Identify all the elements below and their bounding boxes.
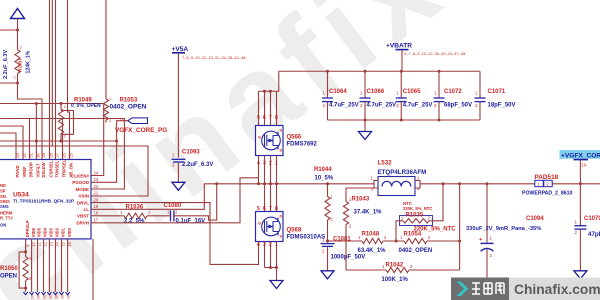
svg-text:24: 24: [94, 170, 99, 175]
wire arrow stem: [17, 19, 19, 31]
chip U534 body: [0, 160, 91, 239]
wire top vertical pin28: [49, 0, 51, 160]
junction LL rail x327.5: [326, 182, 329, 185]
svg-text:33: 33: [15, 152, 20, 157]
vid flag VID1: [59, 292, 63, 295]
svg-text:G: G: [258, 222, 261, 226]
resistor R1036: [124, 213, 147, 218]
wire top vertical pin26 stub: [62, 119, 64, 160]
svg-text:16-: 16-: [48, 293, 52, 299]
svg-text:47pF: 47pF: [588, 231, 600, 238]
banner left box: [451, 278, 509, 300]
svg-text:32: 32: [22, 152, 27, 157]
svg-text:Chinafix.com: Chinafix.com: [514, 282, 600, 297]
vid flag DPRSLP: [23, 292, 27, 295]
wire VID5 down: [37, 239, 39, 292]
wire DPRSLP top: [25, 239, 27, 257]
svg-text:19-: 19-: [582, 163, 589, 168]
wire H y133 pin33: [0, 133, 16, 160]
junction outrail x487: [486, 182, 489, 185]
svg-text:D: D: [280, 215, 283, 219]
svg-text:VID5: VID5: [37, 227, 42, 237]
svg-text:2.2_5%: 2.2_5%: [124, 218, 145, 224]
wire VBATR rail: [279, 70, 480, 72]
svg-text:VID0: VID0: [67, 227, 72, 237]
inductor L532 coil: [382, 181, 411, 186]
svg-text:22: 22: [94, 184, 99, 189]
resistor R1050: [23, 257, 28, 281]
wire H y126 pin32: [0, 126, 23, 160]
vid flag VID3: [47, 292, 51, 295]
wire H y118.5 to pin22 riser: [0, 119, 124, 190]
wire VBST segment: [91, 215, 124, 217]
svg-text:220K_5%_NTC: 220K_5%_NTC: [414, 227, 457, 233]
wire R1037 down: [18, 74, 43, 160]
junction bottomrail x439: [438, 119, 441, 122]
svg-text:4.7uF_25V: 4.7uF_25V: [403, 103, 433, 109]
wire fb mid rail c: [427, 240, 460, 242]
wire C1065 top stem: [400, 71, 402, 97]
junction H103 p30: [35, 102, 38, 105]
wire C1094 bottom stem: [486, 249, 488, 278]
power bar +VBATR: [396, 49, 409, 51]
svg-text:CLKEN#: CLKEN#: [71, 173, 89, 178]
wire C1064 bottom stem: [327, 102, 329, 120]
junction y141 flagline: [115, 140, 118, 143]
wire H y141: [0, 140, 117, 142]
wire C1072 top stem: [438, 71, 440, 97]
ground Q568: [270, 281, 283, 289]
svg-text:124K_1%: 124K_1%: [26, 50, 32, 73]
wire caps bottom rail: [328, 119, 481, 121]
wire Q568 source down 2: [276, 242, 278, 268]
net highlight +VGFX_CORE: [560, 150, 600, 159]
svg-text:DPRSLP: DPRSLP: [25, 220, 30, 237]
svg-text:+: +: [479, 237, 482, 243]
junction gate rail: [257, 182, 260, 185]
wire Q566 gate col: [258, 156, 260, 184]
svg-text:C1070: C1070: [584, 216, 600, 222]
svg-text:7: 7: [269, 115, 272, 121]
wire L532 right stubs: [415, 181, 420, 189]
capacitor C1064: [322, 98, 333, 102]
svg-text:19: 19: [94, 204, 99, 209]
wire Q566 drain pin 5: [258, 91, 260, 125]
power bar +V5A: [172, 52, 185, 54]
svg-text:18pF_50V: 18pF_50V: [488, 103, 516, 109]
wire pin30 riser: [35, 104, 37, 160]
wire fb mid rail a: [328, 240, 363, 242]
svg-text:MODE: MODE: [76, 187, 90, 192]
wire chip corner down: [92, 239, 94, 300]
wire VID6 down: [31, 239, 33, 292]
wire Q566 src to Q568 drain 2: [276, 156, 278, 212]
svg-text:R1044: R1044: [314, 167, 332, 173]
vid flag VID5: [35, 292, 39, 295]
wire Q568 source down 0: [264, 242, 266, 268]
wire R1050 bypass bracket: [19, 252, 26, 288]
svg-text:37.4K_1%: 37.4K_1%: [354, 210, 383, 216]
wire C1094 top stem: [486, 184, 488, 243]
wire C1071 bottom stem: [479, 102, 481, 120]
svg-text:SNS: SNS: [0, 204, 9, 209]
transistor Q566 body: [256, 126, 284, 156]
svg-text:2.2uF_6.3V: 2.2uF_6.3V: [182, 162, 213, 168]
junction LL rail x270.5: [269, 182, 272, 185]
svg-text:VBST: VBST: [77, 214, 89, 219]
svg-text:ND: ND: [0, 183, 6, 188]
junction src bus b: [275, 266, 278, 269]
junction VBATR x401.25: [400, 70, 403, 73]
svg-text:29: 29: [41, 152, 46, 157]
svg-text:PGND: PGND: [15, 165, 20, 177]
resistor R1048: [362, 238, 383, 243]
svg-text:C1093: C1093: [182, 149, 200, 155]
svg-text:OPEN: OPEN: [0, 274, 17, 280]
svg-text:0402_OPEN: 0402_OPEN: [110, 104, 147, 111]
thermistor R1035 element: [403, 219, 429, 223]
svg-text:5-,7-,8-,9-,10-,12-,36-,40-,41: 5-,7-,8-,9-,10-,12-,36-,40-,41-,47-,48-: [404, 52, 467, 56]
capacitor C1080: [171, 210, 174, 221]
junction drain bus a: [263, 90, 266, 93]
vid flag VID6: [29, 292, 33, 295]
banner background: [451, 278, 600, 300]
wire +VBATR stem: [401, 50, 403, 71]
wire R1044 to C1081: [327, 220, 329, 243]
svg-text:16-: 16-: [31, 293, 35, 299]
svg-text:C1081: C1081: [333, 237, 351, 243]
svg-text:28: 28: [49, 152, 54, 157]
junction y141 R1049: [60, 140, 63, 143]
svg-text:68pF_50V: 68pF_50V: [444, 103, 472, 109]
svg-text:16-: 16-: [37, 293, 41, 299]
vid flag VID4: [41, 292, 45, 295]
junction R1050 bottom: [24, 287, 27, 290]
junction drain bus b: [269, 90, 272, 93]
svg-text:DROOP: DROOP: [29, 162, 34, 178]
svg-text:2.2uF_6.3V: 2.2uF_6.3V: [3, 50, 9, 79]
svg-text:17: 17: [94, 218, 99, 223]
svg-text:16-: 16-: [54, 293, 58, 299]
svg-text:CSRSEL: CSRSEL: [49, 160, 54, 177]
transistor Q568 symbol: [262, 217, 281, 236]
svg-text:DRVH: DRVH: [76, 221, 89, 226]
junction outrail x443: [442, 182, 445, 185]
wire output rail: [420, 183, 600, 185]
pad PAD518 square 1: [535, 180, 543, 186]
wire VBATR drop to Q566: [259, 71, 279, 91]
wire R1049 bypass bracket: [61, 111, 74, 135]
svg-text:C1072: C1072: [444, 89, 462, 95]
wire fb low rail b: [409, 269, 460, 271]
wire left to arrow node: [0, 29, 18, 31]
wire C1066 top stem: [364, 71, 366, 97]
svg-text:VID2: VID2: [55, 227, 60, 237]
resistor R1053: [103, 99, 108, 120]
wire VGFX stem: [579, 160, 581, 184]
svg-text:31: 31: [29, 152, 34, 157]
wire LL rail: [204, 183, 374, 185]
svg-text:D: D: [280, 129, 283, 133]
svg-text:FDMS0310AS: FDMS0310AS: [287, 234, 326, 240]
capacitor C1071: [475, 98, 486, 102]
svg-text:21: 21: [94, 191, 99, 196]
wire R1049 bottom stub: [60, 134, 62, 141]
svg-text:VID3: VID3: [49, 227, 54, 237]
wire VID2 down: [54, 239, 56, 292]
svg-text:VSFILT: VSFILT: [36, 163, 41, 178]
wire top vertical pin27: [55, 0, 57, 160]
junction fb ntc: [395, 240, 398, 243]
svg-text:330uF_2V_9mR_Pana_-35%: 330uF_2V_9mR_Pana_-35%: [466, 226, 541, 232]
vid flag VID2: [53, 292, 57, 295]
svg-text:+VGFX_CORE: +VGFX_CORE: [561, 152, 600, 159]
resistor R1044: [325, 197, 330, 221]
svg-text:DSLEW: DSLEW: [41, 162, 46, 177]
wire L532 left stubs: [374, 181, 378, 189]
svg-text:63.4K_1%: 63.4K_1%: [358, 248, 387, 254]
svg-text:16-: 16-: [67, 293, 71, 299]
wire H y103.5 to pin24 riser: [0, 104, 104, 176]
wire R1035 left: [396, 221, 403, 241]
svg-text:R1035: R1035: [406, 213, 424, 219]
wire Q566 drain pin 6: [264, 91, 266, 125]
svg-text:23: 23: [94, 177, 99, 182]
ground C1093: [172, 182, 185, 190]
wire top vertical mid: [51, 0, 53, 146]
junction R1037 y83: [16, 82, 19, 85]
junction VBATR x327.5: [326, 70, 329, 73]
wire fb mid rail b: [383, 240, 404, 242]
svg-text:G: G: [258, 136, 261, 140]
wire source bus to ground: [276, 268, 278, 281]
svg-text:5: 5: [257, 115, 260, 121]
svg-text:C1065: C1065: [403, 89, 421, 95]
svg-text:18: 18: [94, 211, 99, 216]
svg-text:+VBATR: +VBATR: [386, 43, 412, 50]
svg-text:220K_5%_NTC: 220K_5%_NTC: [403, 206, 432, 211]
svg-text:FDMS7692: FDMS7692: [287, 141, 318, 147]
wire left y83: [0, 82, 18, 84]
svg-text:+V5A: +V5A: [172, 46, 189, 53]
junction outrail x459.6: [458, 182, 461, 185]
transistor Q568 body: [256, 212, 284, 242]
svg-text:VSIN: VSIN: [78, 194, 89, 199]
svg-text:VGFX_CORE_PG: VGFX_CORE_PG: [115, 127, 167, 134]
wire DRVL to Q568 gate: [91, 203, 259, 265]
svg-text:20: 20: [94, 197, 99, 202]
ground C1081: [321, 271, 334, 279]
banner cjk text: [472, 283, 504, 294]
junction bottomrail x401.25: [400, 119, 403, 122]
capacitor C1094 polarized: [481, 243, 494, 251]
capacitor C1093: [172, 159, 186, 162]
svg-text:4: 4: [257, 242, 260, 248]
wire Q568 source bus: [265, 267, 277, 269]
wire C1071 top stem: [479, 71, 481, 97]
junction y141 p30: [35, 140, 38, 143]
svg-text:16-: 16-: [61, 293, 65, 299]
svg-text:10_5%: 10_5%: [315, 175, 334, 181]
svg-text:PAD518: PAD518: [535, 174, 559, 181]
svg-text:16-: 16-: [43, 293, 47, 299]
junction R1050 top: [24, 250, 27, 253]
resistor R1042: [386, 267, 409, 272]
svg-text:PGOOD: PGOOD: [72, 180, 90, 185]
svg-text:R_TT#: R_TT#: [0, 216, 13, 221]
wire R1044 top stub: [327, 184, 329, 197]
svg-text:0402_OPEN: 0402_OPEN: [399, 248, 433, 254]
svg-text:25: 25: [69, 152, 74, 157]
svg-text:POWERPAD_2_8610: POWERPAD_2_8610: [522, 190, 572, 196]
junction src bus a: [269, 266, 272, 269]
wire top vertical pin25 dogleg: [68, 0, 70, 160]
wire Q566 src to Q568 drain 1: [270, 156, 272, 212]
transistor Q566 symbol: [262, 131, 281, 150]
svg-text:6: 6: [263, 115, 266, 121]
resistor R1037: [15, 50, 20, 74]
capacitor C1072: [434, 98, 445, 102]
svg-text:13-: 13-: [119, 117, 125, 122]
junction fb right: [458, 240, 461, 243]
svg-text:VID4: VID4: [43, 227, 48, 237]
svg-text:R1042: R1042: [386, 262, 404, 268]
wire C1093 to ground: [177, 163, 179, 183]
junction at arrow node: [16, 29, 19, 32]
wire H y146 VSIN pin21: [0, 146, 148, 196]
capacitor C1066: [360, 98, 371, 102]
wire DRVH to Q566 gate: [91, 178, 259, 223]
wire C1080 jog to rail: [174, 184, 216, 220]
junction bottomrail x365: [364, 119, 367, 122]
junction LL rail x216.7: [215, 182, 218, 185]
wire VID4 down: [43, 239, 45, 292]
junction VBATR x365: [364, 70, 367, 73]
wire Q566 drain pin 7: [270, 91, 272, 125]
wire C1065 bottom stem: [400, 102, 402, 120]
wire top vertical to R1053: [105, 0, 107, 99]
wire Q568 source down 1: [270, 242, 272, 268]
wire VID0 down: [67, 239, 69, 292]
svg-text:R1036: R1036: [126, 204, 144, 210]
power bar +VGFX_CORE: [574, 159, 589, 161]
wire bottomrail to ground: [364, 120, 366, 132]
wire pin31 riser: [29, 119, 31, 160]
svg-text:ON: ON: [0, 223, 6, 228]
vid flag VID0: [65, 292, 69, 295]
resistor R1049: [58, 109, 63, 134]
capacitor C1070: [574, 226, 586, 229]
svg-text:VID1: VID1: [61, 227, 66, 237]
svg-text:R1050: R1050: [0, 266, 18, 272]
wire C1070 to ground: [579, 229, 581, 271]
banner chevron icon: [457, 282, 469, 297]
wire R1043 top stub: [345, 188, 347, 202]
svg-text:27: 27: [55, 152, 60, 157]
pad PAD518 square 2: [544, 180, 552, 186]
wire fb low rail a: [346, 269, 386, 271]
wire R1036 to C1080: [147, 215, 170, 217]
junction outrail x580.4: [579, 182, 582, 185]
wire LL to rail: [91, 184, 204, 210]
svg-text:R1048: R1048: [362, 231, 380, 237]
svg-text:C1094: C1094: [526, 216, 544, 222]
resistor R1043: [343, 202, 348, 225]
wire R1043 top link: [346, 187, 374, 189]
wire fb right vertical: [459, 184, 461, 270]
junction H103 R1049: [60, 102, 63, 105]
power arrow top-left: [11, 9, 25, 19]
junction VBATR x439: [438, 70, 441, 73]
svg-text:VREF: VREF: [22, 166, 27, 178]
svg-text:8: 8: [275, 115, 278, 121]
junction LL rail x276.5: [275, 182, 278, 185]
svg-text:SP: SP: [0, 189, 6, 194]
junction fb C1081: [326, 240, 329, 243]
capacitor C1081: [321, 244, 335, 247]
wire R1049 top stub: [60, 104, 62, 109]
wire Q566 drain pin 8: [276, 91, 278, 125]
ground cap rail: [359, 132, 372, 140]
svg-text:7-,8-,9-,10-,12-,13-,31-,34-,3: 7-,8-,9-,10-,12-,13-,31-,34-,38-,44-,48-: [182, 56, 247, 60]
net flag VGFX_CORE_PG: [128, 118, 148, 124]
junction LL rail x264.5: [263, 182, 266, 185]
wire C1070 top stem: [579, 184, 581, 225]
wire Q566 src to Q568 drain 0: [264, 156, 266, 212]
svg-text:LL: LL: [84, 207, 90, 212]
svg-text:4.7uF_25V: 4.7uF_25V: [329, 103, 359, 109]
svg-text:Q566: Q566: [287, 135, 302, 141]
wire C1064 top stem: [327, 71, 329, 97]
thermistor R1035 box: [400, 216, 433, 226]
wire R1050 bottom: [25, 281, 27, 293]
svg-text:DRVL: DRVL: [77, 200, 89, 205]
svg-text:C1064: C1064: [329, 89, 347, 95]
wire VID1 down: [61, 239, 63, 292]
wire arrow node to R1037: [17, 30, 19, 50]
wire C1066 bottom stem: [364, 102, 366, 120]
svg-text:R1037: R1037: [18, 58, 24, 72]
svg-text:100K_1%: 100K_1%: [382, 277, 409, 283]
inductor L532 body: [378, 177, 415, 196]
svg-text:R1043: R1043: [352, 197, 370, 203]
svg-text:Q568: Q568: [287, 228, 302, 234]
svg-text:L532: L532: [378, 160, 393, 167]
resistor R1054: [404, 238, 427, 243]
svg-text:26: 26: [62, 152, 67, 157]
svg-text:TRIPSEL: TRIPSEL: [62, 159, 67, 177]
svg-text:C1080: C1080: [164, 203, 182, 209]
capacitor C1065: [396, 98, 407, 102]
svg-text:1000pF_50V: 1000pF_50V: [331, 254, 366, 260]
ground C1070: [574, 271, 587, 279]
wire pin23 to flag: [91, 121, 128, 183]
svg-text:VID6: VID6: [31, 227, 36, 237]
svg-text:4.7uF_25V: 4.7uF_25V: [367, 103, 397, 109]
wire R1043 down to fb rail: [345, 225, 347, 271]
svg-text:0_5%_OPEN: 0_5%_OPEN: [71, 103, 101, 109]
wire C1072 bottom stem: [438, 102, 440, 120]
wire C1081 to ground: [327, 247, 329, 271]
wire R1053 bottom stub: [105, 120, 107, 123]
svg-text:30: 30: [36, 152, 41, 157]
svg-text:C1066: C1066: [367, 89, 385, 95]
svg-text:0.1uF_16V: 0.1uF_16V: [176, 219, 206, 225]
wire R1035 right: [429, 184, 443, 221]
svg-text:TONSEL: TONSEL: [55, 160, 60, 177]
wire +V5A stem: [177, 54, 179, 158]
svg-text:C1071: C1071: [488, 89, 506, 95]
